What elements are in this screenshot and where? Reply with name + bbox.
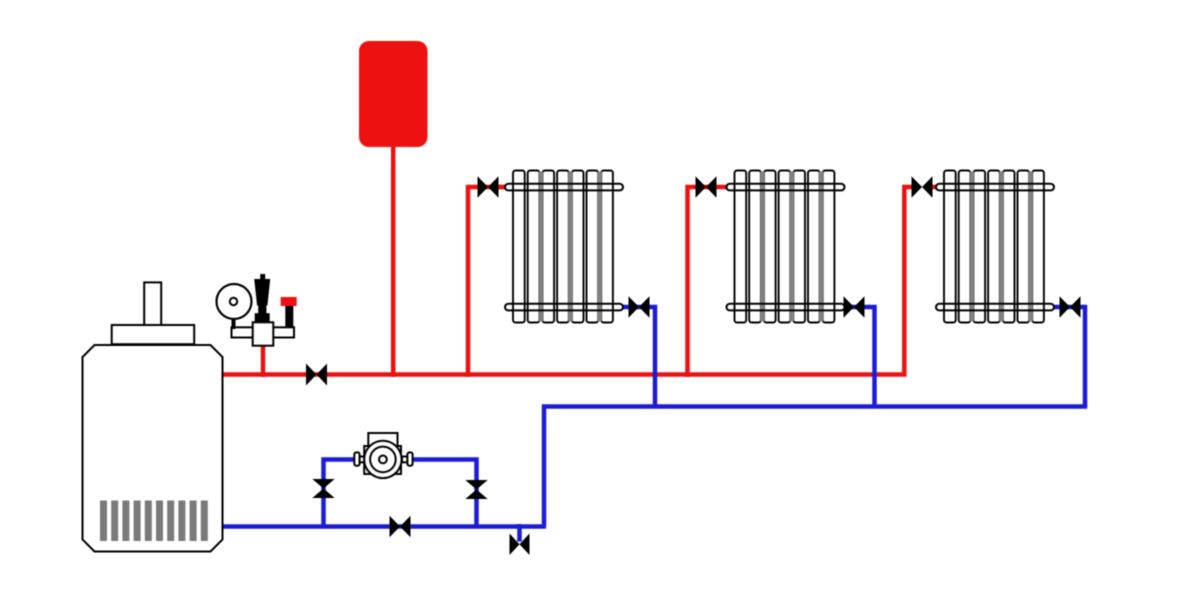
- wire supply main (red) from boiler to radiator 3 riser: [218, 187, 914, 375]
- radiator 2: [727, 171, 845, 323]
- valve radiator 1 return: [629, 296, 650, 318]
- valve bypass right (vertical): [465, 480, 487, 499]
- boiler: [83, 282, 223, 551]
- wire drain stub (blue): [517, 524, 522, 542]
- valve on supply main near boiler: [306, 364, 327, 386]
- air vent: [254, 274, 270, 322]
- gauge stem: [232, 316, 236, 329]
- valve bypass left (vertical): [312, 479, 334, 498]
- valve radiator 2 supply: [696, 176, 717, 198]
- wire radiator 3 valve-to-header stub (red): [928, 185, 937, 190]
- wire radiator 1 supply riser (red): [468, 187, 505, 377]
- valve radiator 3 supply: [912, 176, 933, 198]
- wire radiator 1 valve-to-header stub (red): [496, 185, 506, 190]
- safety group manifold: [217, 274, 297, 346]
- expansion tank: [359, 41, 428, 147]
- wire pump bypass loop (blue): [324, 460, 477, 529]
- pressure gauge: [217, 284, 252, 319]
- valve radiator 3 return: [1060, 296, 1081, 318]
- valve on bottom main between bypass risers: [390, 516, 411, 538]
- wire return bottom main to boiler (blue): [218, 524, 546, 529]
- wire radiator 2 return drop (blue): [845, 307, 875, 407]
- wire safety group stub (red): [261, 340, 266, 377]
- valve radiator 1 supply: [478, 176, 499, 198]
- wire expansion tank drop pipe (red): [391, 144, 396, 377]
- wire radiator 3 return drop (blue): [1055, 307, 1086, 407]
- relief valve red cap: [281, 297, 297, 306]
- central block: [253, 322, 274, 345]
- radiator 1: [505, 171, 623, 323]
- wire radiator 1 return drop (blue): [624, 307, 656, 407]
- wire return mid header (blue): [544, 407, 1087, 527]
- pump U1: [354, 433, 412, 478]
- wire radiator 2 supply riser (red): [688, 187, 728, 377]
- valve drain below main: [510, 534, 530, 556]
- valve radiator 2 return: [844, 296, 865, 318]
- radiator 3: [936, 171, 1054, 323]
- relief valve body: [285, 306, 293, 328]
